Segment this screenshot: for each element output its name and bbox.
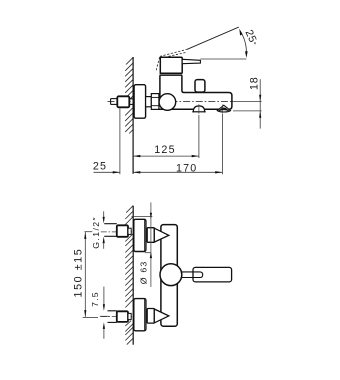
centerline bottom inlet wall side — [101, 316, 134, 318]
dimension 150: extension ticks — [85, 231, 93, 233]
spout body (side view) — [159, 75, 232, 109]
top supply stem (plan view) — [104, 224, 117, 237]
escutcheon flange (side view) — [134, 85, 146, 119]
top escutcheon (plan view) — [134, 219, 146, 251]
valve cap circle (side view) — [159, 94, 176, 111]
25 deg arc — [240, 31, 246, 54]
dimension 18: extension line bottom — [233, 110, 262, 112]
dimension 25: arrow — [113, 171, 120, 173]
stem through wall (side view) — [129, 99, 134, 105]
centerline of inlet (side view) — [108, 101, 262, 103]
svg-text:Ø 63: Ø 63 — [139, 261, 149, 285]
svg-text:7.5: 7.5 — [90, 291, 100, 307]
dimension d63: extension tick — [145, 252, 151, 254]
bottom inlet cone (plan view) — [154, 309, 169, 323]
svg-text:170: 170 — [176, 162, 197, 174]
union nut B flats — [151, 97, 159, 105]
diverter knob (side view) — [195, 80, 205, 93]
wall face line (side view) — [132, 57, 134, 174]
shower outlet cone (side view) — [217, 105, 230, 112]
lever rod (plan view) — [181, 272, 203, 278]
extension tick top (plan view) — [132, 215, 153, 217]
dimension 7.5: arrows — [103, 304, 105, 311]
dimension G1/2: arrows — [103, 217, 105, 224]
wall hatching (plan view) — [125, 206, 133, 345]
hex nut (side view) — [117, 96, 129, 107]
lever (side view) — [182, 59, 200, 63]
dimension 18: dimension line — [259, 79, 261, 128]
union nut B (side view) — [151, 94, 159, 110]
centerline top inlet wall side — [101, 231, 134, 233]
dimension 125: extension line (aerator) — [198, 115, 200, 158]
union piece A (side view) — [146, 97, 152, 107]
dimension 170: dimension line — [133, 171, 222, 173]
lever bar (plan view) — [193, 267, 232, 282]
top inlet cone (plan view) — [154, 228, 169, 242]
svg-text:18: 18 — [248, 77, 260, 91]
dimension 7.5: dimension line — [103, 287, 105, 339]
dimension 25: dimension line — [94, 171, 120, 173]
top escutcheon inner line — [144, 220, 146, 251]
dimension 18: arrow up — [259, 111, 261, 118]
arc arrow top — [239, 29, 242, 36]
dimension d63: arrows — [150, 213, 152, 220]
top stem through wall — [128, 228, 131, 234]
svg-text:150 ±15: 150 ±15 — [73, 248, 85, 298]
dimension 25: extension line (nut face) — [119, 109, 121, 175]
shower outlet centerline tick — [222, 105, 224, 114]
bottom escutcheon (plan view) — [134, 299, 146, 331]
dimension 150 +-15: dimension line — [84, 232, 86, 317]
body column (plan view) — [161, 225, 177, 327]
25 deg rotation line — [187, 27, 239, 49]
dimension 125: arrows — [133, 155, 140, 157]
handle block (side view) — [160, 57, 182, 73]
supply stub (side view) — [111, 99, 118, 105]
svg-text:125: 125 — [154, 144, 175, 156]
wall hatching (side view) — [125, 57, 133, 133]
svg-text:25: 25 — [93, 160, 107, 172]
aerator dome (side view) — [192, 106, 205, 112]
dimension 18: arrow down — [259, 95, 261, 102]
dimension 170: extension line (shower outlet) — [221, 114, 223, 174]
dimension 170: arrows — [133, 171, 140, 173]
dimension 150: arrows — [84, 232, 86, 239]
bottom supply stem (plan view) — [108, 311, 117, 323]
dimension 125: dimension line — [133, 155, 199, 157]
svg-text:G.1/2″: G.1/2″ — [91, 216, 101, 249]
centerline top inlet faucet side — [136, 235, 171, 237]
cartridge circle (plan view) — [160, 264, 182, 286]
bottom escutcheon inner line — [144, 299, 146, 330]
top union nut (plan view) — [147, 228, 154, 243]
top hex nut (plan view) — [117, 225, 128, 237]
bottom stem through wall — [128, 313, 131, 319]
bottom hex nut (plan view) — [117, 311, 128, 322]
dimension diameter 63: dimension line — [150, 202, 152, 287]
arc arrow bottom — [245, 51, 248, 58]
dashed rotated handle outline — [156, 49, 187, 70]
wall face line (plan view) — [132, 206, 134, 345]
cartridge joint band — [160, 74, 183, 76]
dimension 7.5: extension tick — [100, 315, 110, 317]
dimension G1/2: dimension line — [103, 211, 105, 249]
25 deg reference line — [200, 58, 246, 60]
bottom union nut (plan view) — [147, 309, 154, 324]
centerline bottom inlet faucet side — [136, 314, 171, 316]
aerator centerline tick — [198, 104, 200, 114]
